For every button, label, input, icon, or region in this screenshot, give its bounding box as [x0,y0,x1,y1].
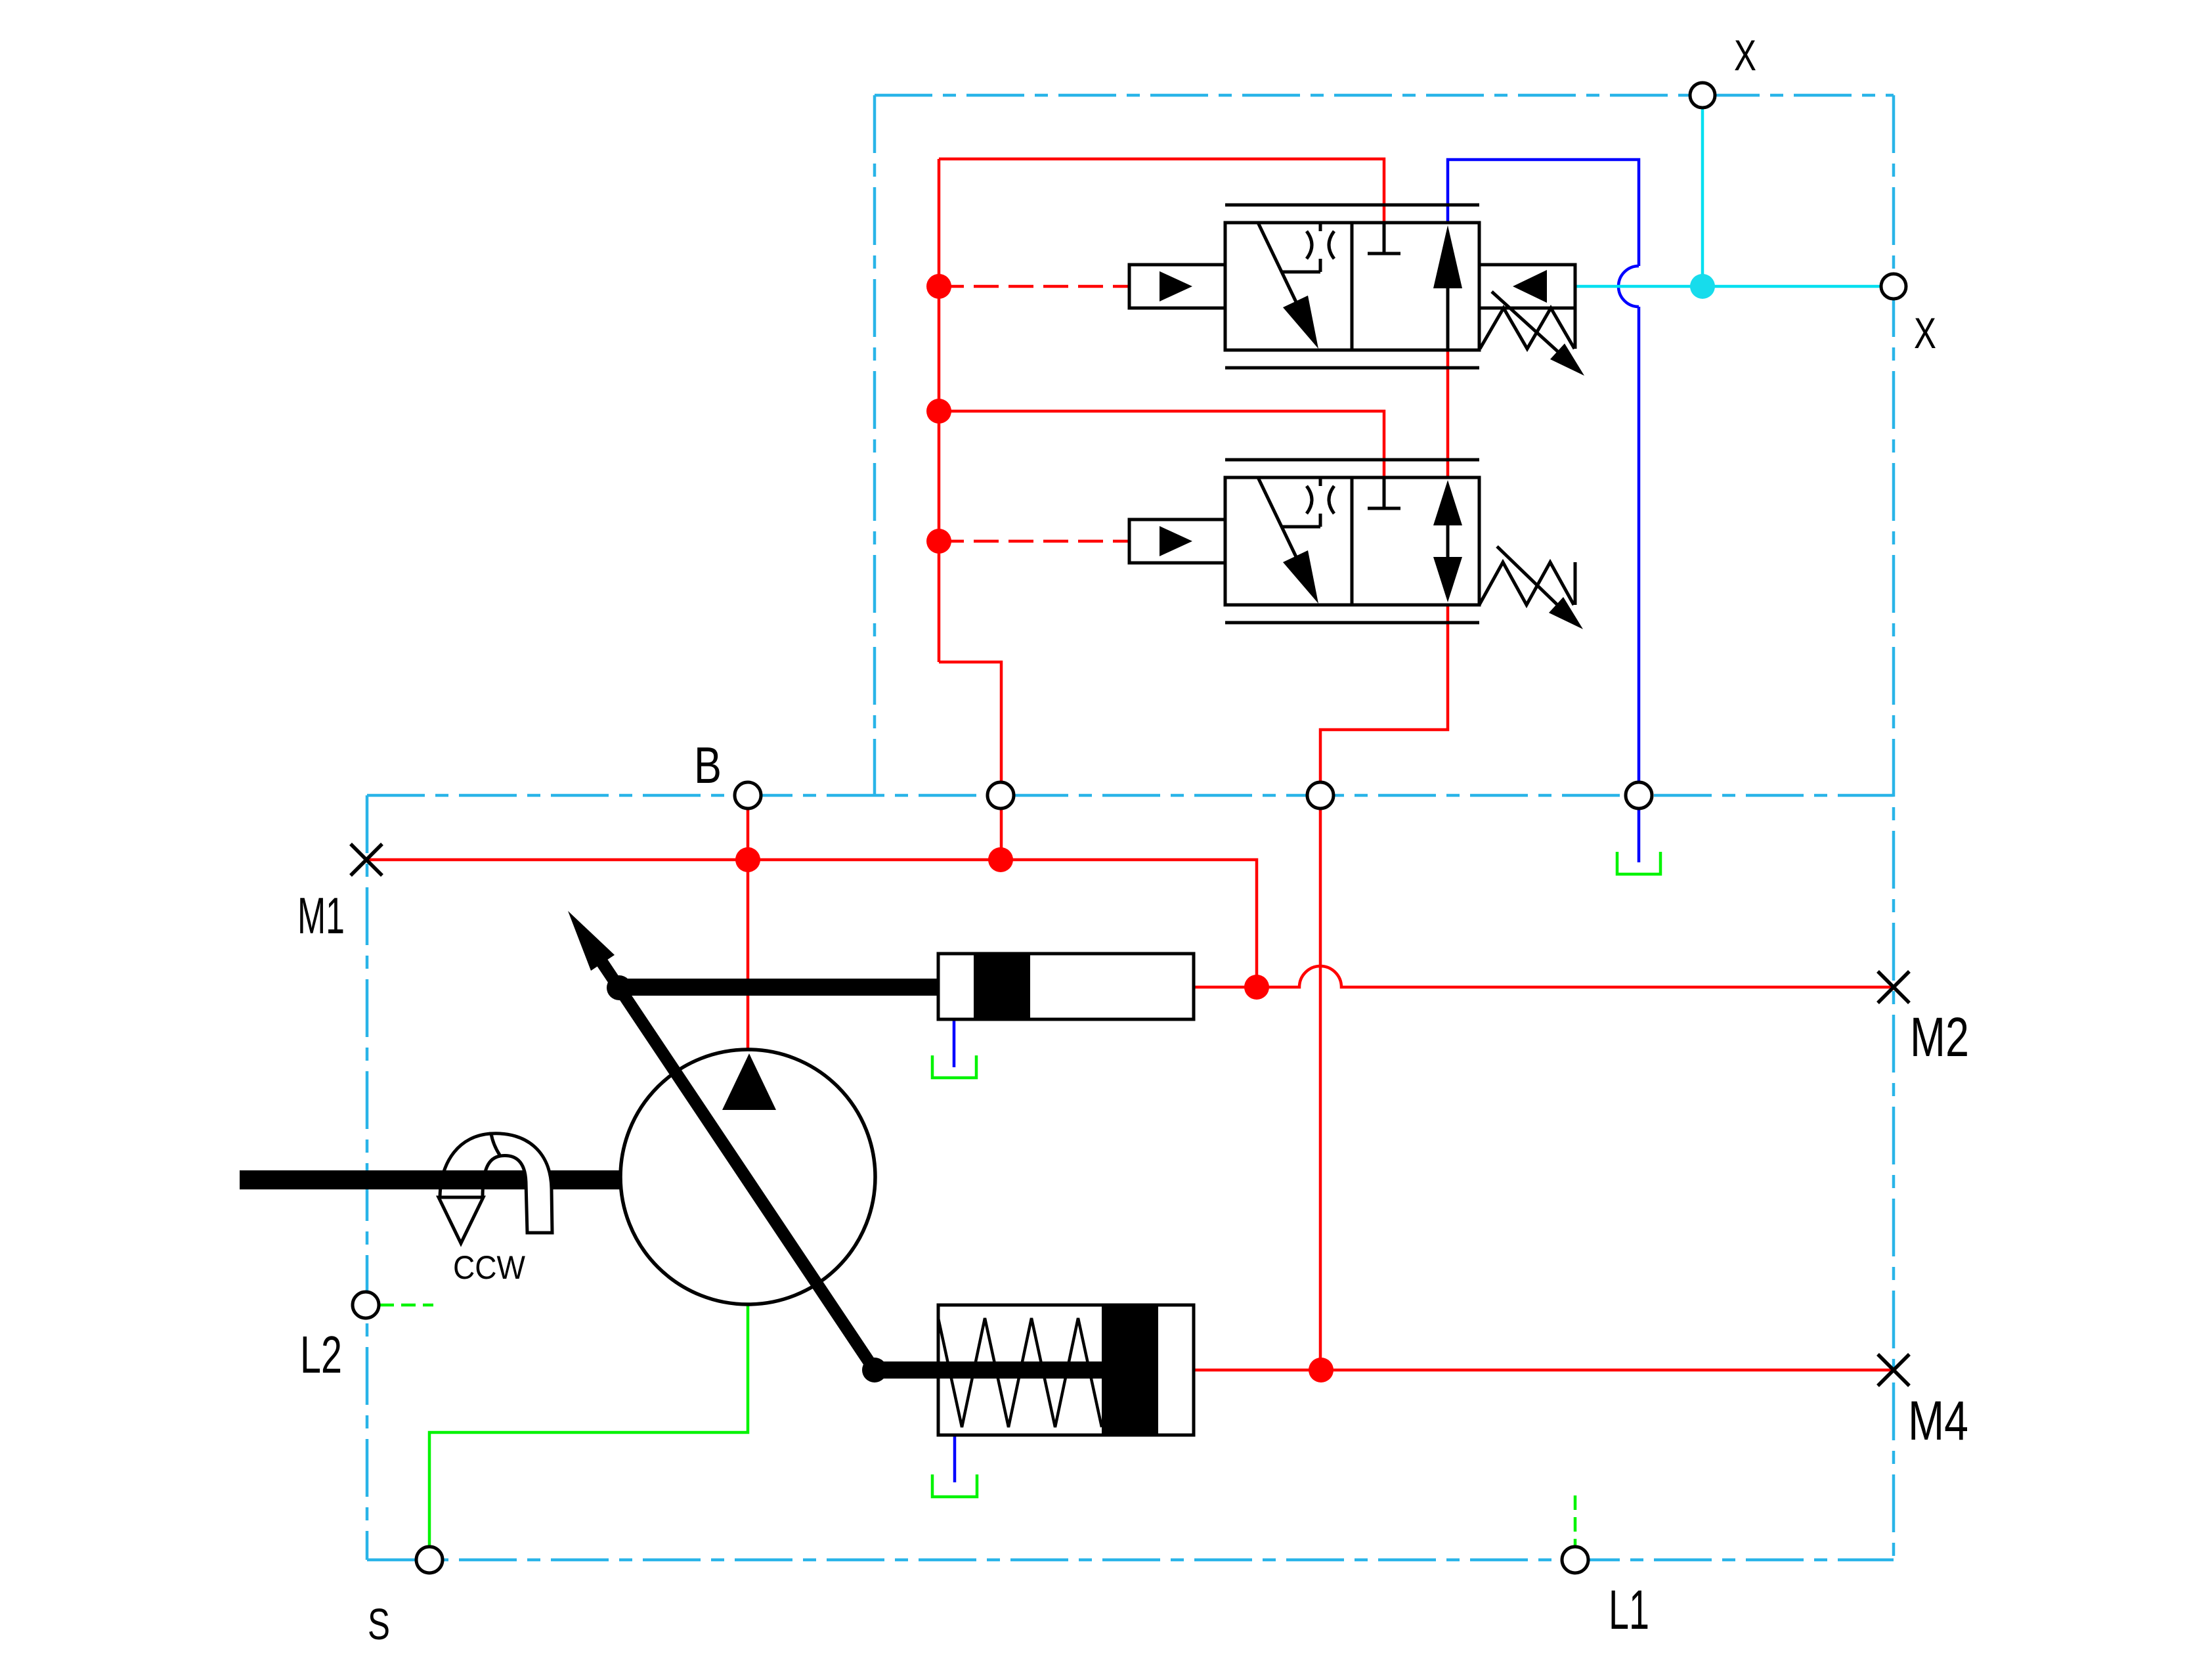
valve U1: throttle sub-box [1281,223,1334,272]
ground: tank symbol on blue drain [1617,852,1660,874]
wire: B port drop to pump [747,795,750,1050]
valve U2: proportional pressure control (bottom) [1129,460,1479,623]
node: swash plate arm [568,911,875,1370]
pump: CCW rotation ribbon arrow [240,1134,620,1243]
servo cylinder 2 (bottom, with spring) [875,1305,1194,1435]
valve U1: adjustable spring [1480,292,1576,368]
pump: flow direction triangle [722,1053,776,1110]
wire: pilot line to U2 (dashed) [939,540,1129,543]
ground: tank symbol under servo 2 [932,1474,977,1497]
wire: M1 pressure rail [366,860,1257,987]
wire: servo piston 2 to M4 rail [1194,1369,1894,1372]
port L2 [353,1292,379,1318]
port M2 cross [1878,971,1909,1003]
pump: main circle [620,1050,875,1304]
svg-text:L1: L1 [1609,1579,1649,1641]
wire: cyan X pilot line [1575,108,1881,286]
wire: L2 stub (dashed) [380,1304,433,1307]
wire: drain of servo 2 [953,1435,957,1482]
node: red junction dots [735,274,1334,1382]
node: pivot of arm and servo 2 rod [862,1358,887,1382]
wire: U1 to U2 interstage [1446,350,1450,477]
node: pivot of arm and servo 1 rod [607,975,632,1000]
wire: L1 stub (dashed) [1574,1495,1577,1547]
valve U2: vent T symbol [1368,477,1400,508]
valve U1: vent T symbol [1368,223,1400,254]
wire: border of pilot control block (upper enclosure) [367,95,1894,1560]
port: pilot return port circle 3 [1307,782,1334,808]
svg-text:M1: M1 [297,887,345,944]
wire: drain of servo 1 [953,1019,956,1067]
port S [416,1547,443,1573]
valve U2: throttle sub-box [1281,477,1334,527]
wire: elbow to port circle P2 [939,662,1001,860]
valve U1: pilot triangle [1160,271,1192,301]
svg-text:X: X [1914,309,1936,357]
wire: blue drain from U1 to tank [954,160,1639,1482]
port: pilot supply port circle 2 [987,782,1014,808]
valve U1: left position flow arrow [1258,223,1318,349]
valve U2: adjustable spring [1479,546,1576,623]
svg-text:M4: M4 [1908,1390,1968,1451]
wire: servo piston 1 to M2 with hop [1194,966,1894,987]
valve U2: right position double arrow [1433,480,1462,602]
svg-text:S: S [368,1600,390,1649]
valve U1: pressure relief pilot box [1479,265,1575,308]
port B [735,782,761,808]
valve U2: pilot triangle [1160,526,1192,556]
ground: tank symbol under servo 1 [932,1055,976,1078]
node: cyan junction dot [1690,274,1715,299]
svg-text:CCW: CCW [453,1249,526,1286]
port L1 [1562,1547,1588,1573]
valve U2: left position flow arrow [1258,477,1318,604]
wire: U2 out down and across [1320,605,1448,1370]
svg-text:X: X [1734,31,1756,79]
port X top [1690,83,1715,108]
servo cylinder 1 (top, without spring) [619,954,1194,1019]
svg-text:M2: M2 [1910,1006,1969,1068]
svg-text:B: B [694,736,722,794]
port M1 cross [351,844,382,875]
port X right [1881,274,1906,299]
port: drain port circle 4 [1626,782,1652,808]
port M4 cross [1878,1354,1909,1386]
valve U1: right position up arrow [1433,225,1462,350]
valve U1: proportional pressure control (top) [1129,205,1479,368]
wire: red pilot supply vertical trunk [366,159,1894,1370]
wire: feed to valve U2 vent [939,411,1384,477]
wire: pilot line to U1 (dashed) [939,285,1129,288]
wire: green case drain from pump to S [380,1304,1575,1547]
pump: drive shaft [240,1170,620,1189]
wire: feed to valve U1 vent [939,159,1384,223]
svg-text:L2: L2 [300,1325,342,1384]
